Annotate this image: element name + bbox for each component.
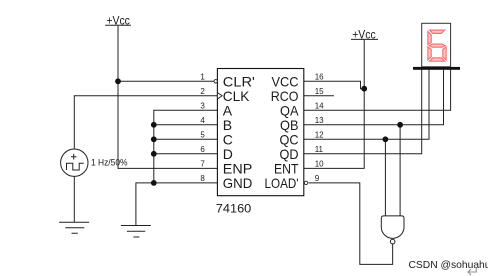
- svg-text:14: 14: [315, 102, 324, 111]
- svg-text:9: 9: [315, 174, 320, 183]
- svg-text:+Vcc: +Vcc: [352, 30, 376, 42]
- svg-text:LOAD': LOAD': [265, 175, 299, 191]
- svg-text:15: 15: [315, 87, 324, 96]
- svg-text:1: 1: [200, 73, 205, 82]
- svg-text:74160: 74160: [216, 202, 252, 215]
- svg-text:4: 4: [200, 116, 205, 125]
- svg-text:QD: QD: [280, 146, 299, 162]
- svg-text:D: D: [223, 146, 233, 162]
- svg-text:8: 8: [200, 174, 205, 183]
- svg-text:16: 16: [315, 73, 324, 82]
- svg-text:12: 12: [315, 131, 324, 140]
- svg-text:2: 2: [200, 87, 205, 96]
- svg-text:3: 3: [200, 102, 205, 111]
- svg-text:7: 7: [200, 160, 205, 169]
- svg-text:10: 10: [315, 160, 324, 169]
- svg-text:11: 11: [315, 145, 324, 154]
- svg-text:5: 5: [200, 131, 205, 140]
- svg-text:13: 13: [315, 116, 324, 125]
- svg-text:+Vcc: +Vcc: [106, 15, 130, 27]
- svg-text:6: 6: [200, 145, 205, 154]
- svg-text:GND: GND: [223, 175, 253, 191]
- svg-text:1 Hz/50%: 1 Hz/50%: [91, 158, 128, 168]
